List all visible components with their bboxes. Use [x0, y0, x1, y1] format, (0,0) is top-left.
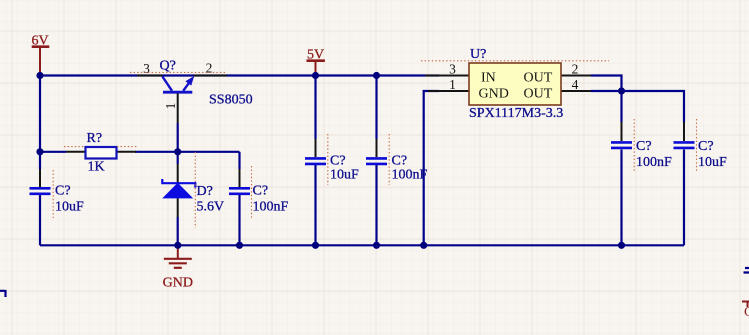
partial symbol at right edge (maroon)	[742, 302, 749, 308]
junction node ground rail at U1 pin 1	[420, 242, 427, 249]
svg-text:C?: C?	[392, 154, 408, 169]
svg-text:3: 3	[143, 61, 150, 76]
junction node ground rail at C2	[236, 242, 243, 249]
wire bottom ground rail	[40, 244, 684, 246]
svg-text:U?: U?	[470, 47, 486, 62]
svg-text:5.6V: 5.6V	[197, 200, 225, 215]
capacitor C5 (C? 100nF)	[611, 122, 672, 170]
wire U1 pin 2 output down to pin 4 row	[591, 76, 622, 92]
ground symbol GND	[163, 245, 193, 290]
capacitor C6 (C? 10uF)	[674, 122, 728, 170]
svg-text:D?: D?	[197, 184, 213, 199]
svg-text:C?: C?	[253, 184, 269, 199]
svg-text:100nF: 100nF	[253, 200, 289, 215]
wire U1 pin 1 to ground rail	[424, 91, 439, 245]
squiggle under R1 designator	[64, 146, 137, 148]
svg-text:OUT: OUT	[524, 71, 553, 86]
svg-text:1: 1	[163, 103, 178, 110]
svg-text:6V: 6V	[31, 34, 48, 49]
junction node 5V rail at C3	[312, 72, 319, 79]
svg-text:C?: C?	[55, 184, 71, 199]
zener diode D1 (D? 5.6V)	[162, 164, 224, 217]
squiggle left of C5 designator	[633, 119, 635, 171]
squiggle left of C2 designator	[251, 166, 253, 218]
svg-text:R?: R?	[87, 131, 103, 146]
junction node base/zener cross	[174, 148, 181, 155]
svg-text:G: G	[744, 305, 749, 320]
regulator U1 (U? SPX1117M3-3.3)	[425, 47, 591, 121]
capacitor C3 (C? 10uF)	[305, 139, 359, 183]
svg-text:GND: GND	[163, 276, 193, 291]
wire C3 branch vertical (5V node)	[314, 76, 316, 140]
svg-text:C?: C?	[330, 154, 346, 169]
wire U1 pin 4 to output node	[591, 90, 622, 92]
junction node ground rail at C4	[373, 242, 380, 249]
partial symbol at left edge (blue)	[0, 290, 6, 297]
squiggle left of C3 designator	[327, 134, 329, 185]
resistor R1 (R? 1K)	[66, 131, 136, 175]
svg-text:4: 4	[572, 77, 579, 92]
junction node 5V rail at C4	[373, 72, 380, 79]
junction node resistor row left	[36, 148, 43, 155]
svg-text:GND: GND	[479, 87, 509, 102]
wire C6 branch vertical lower	[683, 150, 685, 246]
squiggle under Q1 designator and pin numbers	[130, 71, 226, 73]
wire transistor base down to resistor row	[177, 123, 179, 152]
wire C5 branch vertical	[620, 91, 622, 122]
capacitor C2 (C? 100nF)	[229, 169, 289, 215]
junction node ground rail at C3	[312, 242, 319, 249]
partial symbol at right edge (blue)	[744, 268, 749, 273]
svg-text:1K: 1K	[88, 160, 105, 175]
svg-text:SPX1117M3-3.3: SPX1117M3-3.3	[469, 106, 563, 121]
power port 5V	[307, 48, 325, 76]
svg-text:1: 1	[449, 77, 456, 92]
svg-text:Q?: Q?	[160, 59, 176, 74]
svg-text:3: 3	[449, 62, 456, 77]
svg-text:100nF: 100nF	[392, 168, 428, 183]
power port 6V	[31, 34, 49, 76]
transistor Q1 (Q? SS8050)	[137, 59, 253, 124]
svg-text:C?: C?	[636, 139, 652, 154]
wire resistor row (node to R1 and on to C2 branch)	[40, 151, 66, 153]
wire zener column	[177, 152, 179, 164]
squiggle under U1 designator	[421, 60, 609, 62]
junction node ground rail at C5	[618, 242, 625, 249]
wire top rail (6V to U1 pin 3)	[40, 74, 439, 76]
wire output node to right capacitors	[622, 91, 685, 122]
svg-text:SS8050: SS8050	[209, 93, 253, 108]
squiggle left of C6 designator	[696, 119, 698, 171]
svg-text:10uF: 10uF	[698, 155, 727, 170]
svg-text:2: 2	[572, 62, 579, 77]
wire C4 branch vertical	[375, 76, 377, 140]
capacitor C1 (C? 10uF)	[30, 169, 85, 215]
squiggle left of C4 designator	[388, 134, 390, 185]
svg-text:10uF: 10uF	[330, 168, 359, 183]
wire left vertical branch (6V node down through C1 to bottom rail)	[39, 76, 41, 170]
squiggle left of C1 designator	[52, 170, 54, 218]
svg-text:10uF: 10uF	[55, 200, 84, 215]
junction node 3.3V output	[618, 87, 625, 94]
capacitor C4 (C? 100nF)	[366, 139, 428, 183]
svg-text:2: 2	[206, 61, 213, 76]
svg-text:5V: 5V	[307, 48, 324, 63]
squiggle left of D1 designator	[194, 152, 196, 228]
svg-text:IN: IN	[481, 71, 496, 86]
junction node on 6V rail	[36, 72, 43, 79]
svg-text:C?: C?	[698, 139, 714, 154]
svg-text:100nF: 100nF	[636, 155, 672, 170]
svg-text:OUT: OUT	[524, 87, 553, 102]
wire C2 branch vertical	[238, 152, 240, 169]
junction node ground rail at GND	[174, 242, 181, 249]
